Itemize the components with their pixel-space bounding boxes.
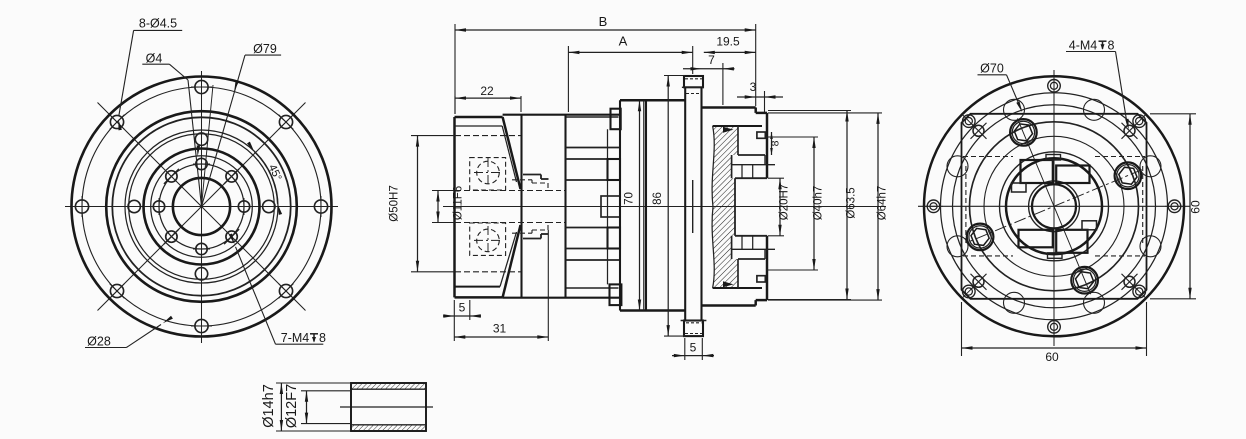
dimension Ø11F6 <box>432 190 457 192</box>
right view outer circle <box>924 76 1184 336</box>
dimension Ø40h7 <box>766 136 818 138</box>
left view circle r51 <box>151 156 253 258</box>
svg-text:7: 7 <box>708 53 715 67</box>
dimension Ø20H7 <box>779 178 781 236</box>
dimension B <box>455 29 756 31</box>
dimension 7 (flange thickness) <box>722 63 724 105</box>
dimension B top <box>454 24 456 114</box>
housing bottom edge through neck <box>503 297 620 299</box>
left view 8x Ø4.5 flange holes on R119.5 <box>195 80 208 93</box>
dimension 22 <box>454 96 456 114</box>
svg-text:8: 8 <box>1108 39 1115 53</box>
housing top edge through neck <box>503 114 620 116</box>
dimension 86 <box>667 76 669 337</box>
left view center bore <box>173 178 230 235</box>
adapter plate edge <box>520 115 522 298</box>
dimension Ø11F6 <box>437 191 439 223</box>
svg-text:7-M4: 7-M4 <box>281 331 310 345</box>
dimension Ø20H7 <box>768 177 784 179</box>
gear section left edge <box>564 115 566 298</box>
dimension A <box>568 51 692 53</box>
gear section horizontal lines (planet gears) <box>566 147 621 149</box>
svg-text:60: 60 <box>1189 200 1203 214</box>
wavy break line of cup section <box>712 126 714 288</box>
dimension Ø12F7 <box>306 391 308 424</box>
svg-text:5: 5 <box>690 341 697 355</box>
right view vertical centerline <box>1053 70 1055 346</box>
sun gear center rects <box>601 196 620 217</box>
radial stub line <box>202 85 214 207</box>
dimension 3 (spigot) <box>764 91 766 112</box>
left view 45deg diagonal centerline NE-SW <box>98 103 306 311</box>
45 degree angle arc dimension <box>254 152 277 204</box>
circlip groove rects <box>757 132 765 138</box>
right view circle r70 thin <box>984 136 1124 276</box>
cup rim chamfer wedge <box>723 127 734 133</box>
sleeve bore lines <box>351 388 426 390</box>
bearing lower rows <box>738 258 765 260</box>
svg-text:Ø12F7: Ø12F7 <box>284 384 300 428</box>
dimension Ø64h7 <box>877 113 879 300</box>
dimension Ø50H7 <box>417 136 419 272</box>
svg-text:22: 22 <box>480 84 494 98</box>
svg-text:Ø20H7: Ø20H7 <box>779 184 791 220</box>
svg-text:31: 31 <box>493 322 507 336</box>
dimension 8 small <box>771 132 773 155</box>
hidden screw hole circles in input block (dashed) <box>477 161 500 184</box>
left view horizontal centerline <box>65 206 338 208</box>
svg-text:Ø63.5: Ø63.5 <box>846 187 858 218</box>
left view boss circle inner <box>112 117 290 295</box>
output flange disk <box>684 87 686 320</box>
svg-text:Ø70: Ø70 <box>980 62 1004 76</box>
svg-text:Ø79: Ø79 <box>253 42 277 56</box>
hidden bore Ø11F6 dashed lines <box>455 190 549 192</box>
svg-text:Ø28: Ø28 <box>87 335 111 349</box>
svg-text:Ø4: Ø4 <box>146 52 163 66</box>
gear seam lines <box>566 116 619 118</box>
svg-text:19.5: 19.5 <box>716 35 740 49</box>
left view outer circle (flange OD) <box>72 77 332 337</box>
dimension 22 <box>455 97 521 99</box>
right view circle r101.5 (Ø70) <box>953 105 1156 308</box>
left view vertical centerline <box>201 71 203 343</box>
left view boss circle outer <box>106 111 297 302</box>
dimension 60 <box>1189 114 1191 299</box>
sleeve outline <box>351 383 426 431</box>
dimension Ø12F7 <box>301 390 351 392</box>
left view thick circle r58 <box>144 149 260 265</box>
dimension 31 <box>454 336 548 338</box>
dimension Ø50H7 left <box>411 135 456 137</box>
bearing upper rows <box>738 154 765 156</box>
svg-text:8: 8 <box>770 140 782 146</box>
housing back panel <box>620 99 685 101</box>
dimension 60 right of right view <box>1150 113 1196 115</box>
right view 4 corner M4 holes with X marks <box>973 125 984 136</box>
right view center bore <box>1032 184 1076 228</box>
right view horizontal centerline <box>918 205 1190 207</box>
dimension 60 <box>962 347 1147 349</box>
dimension 31 <box>453 300 455 341</box>
left view circle r76 <box>125 130 278 283</box>
right view 8 double holes on R120.5 <box>1048 80 1061 93</box>
svg-text:A: A <box>619 34 628 49</box>
right view 8 back holes r10.5 on R104.5 <box>1084 99 1105 120</box>
dimension Ø40h7 <box>813 137 815 270</box>
left view circle r73 <box>129 134 275 280</box>
left view 45deg diagonal centerline NW-SE <box>98 103 306 311</box>
svg-text:8-Ø4.5: 8-Ø4.5 <box>139 17 177 31</box>
svg-text:Ø14h7: Ø14h7 <box>261 384 277 428</box>
dimension Ø14h7 <box>280 383 282 431</box>
svg-text:Ø40h7: Ø40h7 <box>813 186 825 221</box>
left view 4 holes on R67.3 (N E S W) <box>195 133 207 145</box>
left view ring of 8 holes on R42.5 (7-M4 + Ø4) <box>196 158 207 169</box>
sleeve hatch bottom <box>352 426 426 431</box>
right view circle r84.5 <box>970 122 1139 291</box>
output flange bottom tab <box>684 321 703 337</box>
dimension 5 left bottom <box>469 300 471 320</box>
svg-text:8: 8 <box>319 331 326 345</box>
hidden coupling bore stepped dashes <box>512 179 532 181</box>
gear teeth column <box>607 129 609 284</box>
right view center bore ring <box>1029 181 1080 232</box>
sleeve hatch top <box>352 384 426 389</box>
dimension A <box>567 46 569 112</box>
dimension 86 <box>664 75 685 77</box>
svg-text:B: B <box>599 14 608 29</box>
dimension 5 bottom flange <box>684 338 686 360</box>
dimension 19.5 <box>704 51 756 53</box>
right view circle r113.5 <box>941 93 1168 320</box>
left view bolt circle Ø79 (8 holes) <box>82 87 321 326</box>
right view 4 hex socket screws on R80 <box>1010 119 1037 146</box>
right view square flange 60x60 <box>962 114 1147 299</box>
svg-text:70: 70 <box>624 192 636 205</box>
svg-text:86: 86 <box>652 192 664 205</box>
right view carrier circle thin <box>1000 152 1109 261</box>
svg-text:3: 3 <box>750 80 757 94</box>
clamp hub step at taper tip <box>523 174 541 176</box>
output housing body outline <box>702 106 756 108</box>
svg-text:5: 5 <box>459 301 466 315</box>
dimension Ø63.5 <box>846 111 848 300</box>
output flange top tab <box>684 76 703 87</box>
dimension 60 bottom of right view <box>961 302 963 356</box>
input block taper diagonals <box>503 117 521 189</box>
dimension Ø64h7 <box>768 112 882 114</box>
left view bolt circle Ø28 (7-M4 holes) <box>159 164 244 249</box>
svg-text:Ø11F6: Ø11F6 <box>453 186 465 220</box>
output bore Ø20H7 lines <box>735 177 767 179</box>
dimension Ø14h7 <box>276 382 351 384</box>
svg-text:60: 60 <box>1045 350 1059 364</box>
hidden screw pocket dashed rectangles <box>470 158 506 190</box>
right view carrier circle thick <box>1006 158 1102 254</box>
hidden bore Ø50H7 dashed lines in input block <box>455 135 521 137</box>
input block outline <box>453 117 455 297</box>
sleeve centerline <box>340 406 433 408</box>
svg-text:Ø64h7: Ø64h7 <box>877 186 889 221</box>
right view carrier slot rects <box>1021 160 1053 183</box>
right view diagonal centerline through hex screws <box>1017 118 1090 294</box>
dimension 70 <box>639 100 641 310</box>
cup bottom edge <box>713 287 762 289</box>
right view hidden dashed lines <box>963 156 1013 158</box>
dimension Ø63.5 <box>768 110 851 112</box>
cup top edge <box>713 125 762 127</box>
svg-text:4-M4: 4-M4 <box>1069 39 1098 53</box>
middle view horizontal centerline (axis) <box>443 206 886 208</box>
svg-text:Ø50H7: Ø50H7 <box>389 185 401 221</box>
